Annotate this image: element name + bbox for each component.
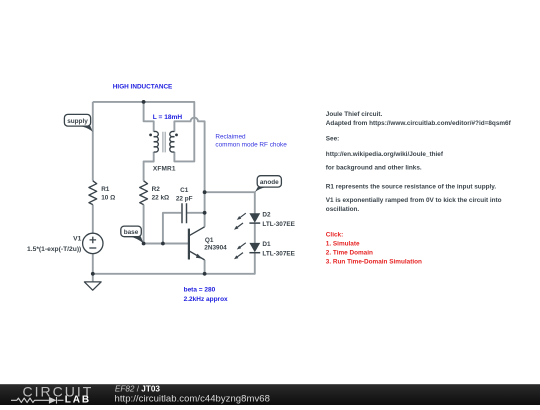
transformer phase dot right [175,134,178,137]
svg-text:HIGH INDUCTANCE: HIGH INDUCTANCE [113,84,173,91]
LED D1 [234,243,260,259]
svg-text:http://circuitlab.com/c44byzng: http://circuitlab.com/c44byzng8mv68 [115,393,270,404]
svg-text:1. Simulate: 1. Simulate [326,241,360,248]
junction node: base wire at C1 branch [161,242,165,246]
svg-text:V1 is exponentially ramped fro: V1 is exponentially ramped from 0V to ki… [326,197,502,204]
junction node: top rail / primary [142,100,146,104]
svg-text:common mode RF choke: common mode RF choke [215,142,287,149]
svg-text:LTL-307EE: LTL-307EE [262,251,295,258]
wire: R2 bottom lead and base wire [144,205,189,244]
transistor Q1 [189,227,205,260]
svg-text:http://en.wikipedia.org/wiki/J: http://en.wikipedia.org/wiki/Joule_thief [326,151,444,158]
svg-text:2.2kHz approx: 2.2kHz approx [184,296,228,303]
transformer XFMR1 [154,131,175,152]
ground [84,282,101,290]
svg-text:R2: R2 [152,186,161,193]
capacitor C1 [182,203,187,223]
svg-text:L = 18mH: L = 18mH [153,114,183,121]
wire: emitter lead down to ground rail [204,260,206,274]
svg-text:22 pF: 22 pF [176,195,193,202]
svg-text:base: base [124,229,139,236]
wire: primary winding bottom down to R2 top [144,152,154,181]
svg-text:Click:: Click: [326,232,343,239]
wire: ground stub [92,274,94,282]
svg-text:See:: See: [326,136,340,143]
junction node: base wire at R2 [142,242,146,246]
wire: top supply rail and right-side drop to secondary bottom [93,102,195,161]
svg-text:Joule Thief circuit.: Joule Thief circuit. [326,111,383,118]
junction node: ground rail left [91,272,95,276]
wire: C1 right lead to collector column [187,212,205,214]
svg-text:supply: supply [67,118,88,125]
svg-text:V1: V1 [73,236,81,243]
svg-text:LAB: LAB [65,394,91,405]
svg-text:for background and other links: for background and other links. [326,164,422,171]
svg-text:LTL-307EE: LTL-307EE [262,221,295,228]
annotation note paragraph 1 [326,111,512,213]
resistor R2 [140,181,148,205]
svg-text:R1: R1 [101,186,110,193]
junction node: emitter at ground rail [203,272,207,276]
svg-text:3. Run Time-Domain Simulation: 3. Run Time-Domain Simulation [326,259,422,266]
svg-text:beta = 280: beta = 280 [184,287,216,294]
svg-text:2N3904: 2N3904 [204,245,227,252]
node base flag [121,226,144,243]
svg-text:EF82 / JT03: EF82 / JT03 [115,385,161,394]
svg-text:XFMR1: XFMR1 [153,165,176,172]
svg-text:C1: C1 [180,187,189,194]
wire: between D2 and D1 [254,223,256,243]
junction node: anode wire at collector column [203,190,207,194]
wire: R1 bottom to V1 top [92,205,94,234]
transformer core [163,132,165,153]
svg-text:Reclaimed: Reclaimed [215,134,246,141]
wire: C1 left branch down to base wire [163,213,181,244]
footer logo resistor-diode squiggle [11,397,64,404]
svg-text:oscillation.: oscillation. [326,206,360,213]
LED D2 [234,213,260,230]
svg-text:anode: anode [260,179,279,186]
svg-text:22 kΩ: 22 kΩ [152,194,170,201]
svg-text:R1 represents the source resis: R1 represents the source resistance of t… [326,183,497,190]
svg-text:Q1: Q1 [205,237,214,244]
svg-text:10 Ω: 10 Ω [101,194,115,201]
voltage source V1 [83,233,103,253]
node supply flag [64,114,92,131]
resistor R1 [89,181,97,205]
wire: V1 bottom, ground rail, up to D1 cathode [93,253,255,274]
svg-text:D1: D1 [262,241,271,248]
transformer phase dot left [149,134,152,137]
svg-text:1.5*(1-exp(-T/2u)): 1.5*(1-exp(-T/2u)) [27,246,81,253]
wire: left rail from top rail to R1 [92,102,94,181]
svg-text:Adapted from https://www.circu: Adapted from https://www.circuitlab.com/… [326,120,512,127]
svg-text:2. Time Domain: 2. Time Domain [326,250,373,257]
node anode flag [255,176,282,193]
wire: junction to primary winding top [144,102,154,132]
junction node: C1 right at collector column [203,211,207,215]
annotation click instructions (red) [326,232,422,266]
wire: secondary top, hop over rail drop, down to collector node [174,118,204,227]
svg-text:D2: D2 [262,212,271,219]
wire: anode wire to LED string [205,192,255,213]
